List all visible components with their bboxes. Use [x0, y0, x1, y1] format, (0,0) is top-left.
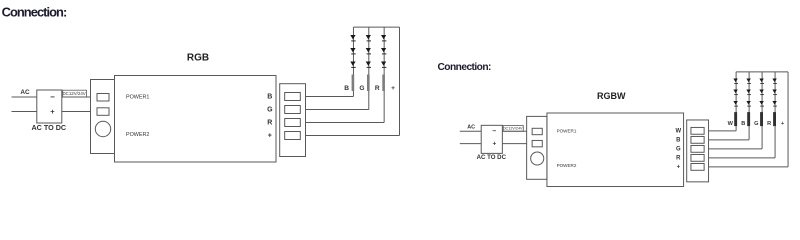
- svg-text:G: G: [754, 121, 758, 127]
- svg-text:POWER1: POWER1: [557, 128, 577, 133]
- svg-text:+: +: [677, 165, 681, 171]
- svg-text:R: R: [767, 121, 771, 127]
- svg-text:POWER1: POWER1: [126, 94, 149, 100]
- svg-text:AC: AC: [467, 125, 475, 131]
- svg-text:+: +: [268, 133, 272, 140]
- svg-text:POWER2: POWER2: [557, 163, 577, 168]
- svg-text:B: B: [344, 85, 349, 92]
- svg-text:B: B: [741, 121, 745, 127]
- svg-text:R: R: [267, 120, 272, 127]
- svg-text:−: −: [492, 128, 496, 135]
- svg-text:G: G: [359, 85, 364, 92]
- svg-text:DC12V/24V: DC12V/24V: [503, 127, 523, 131]
- svg-text:+: +: [493, 141, 497, 148]
- svg-text:R: R: [375, 85, 380, 92]
- svg-text:AC TO DC: AC TO DC: [31, 123, 66, 132]
- svg-text:Connection:: Connection:: [2, 4, 67, 19]
- svg-text:G: G: [267, 107, 273, 114]
- svg-text:RGB: RGB: [187, 53, 209, 64]
- svg-text:R: R: [676, 156, 681, 162]
- svg-text:POWER2: POWER2: [126, 132, 149, 138]
- svg-text:B: B: [676, 138, 680, 144]
- svg-text:AC: AC: [20, 89, 30, 96]
- svg-text:B: B: [267, 94, 272, 101]
- svg-text:W: W: [728, 121, 734, 127]
- svg-text:Connection:: Connection:: [438, 62, 492, 73]
- svg-text:G: G: [676, 147, 681, 153]
- svg-text:−: −: [50, 92, 55, 101]
- svg-text:+: +: [391, 85, 395, 92]
- svg-text:DC12V/24V: DC12V/24V: [63, 91, 86, 96]
- svg-text:RGBW: RGBW: [597, 91, 626, 101]
- svg-text:+: +: [50, 107, 55, 116]
- svg-text:AC TO DC: AC TO DC: [477, 154, 507, 161]
- svg-text:W: W: [676, 129, 682, 135]
